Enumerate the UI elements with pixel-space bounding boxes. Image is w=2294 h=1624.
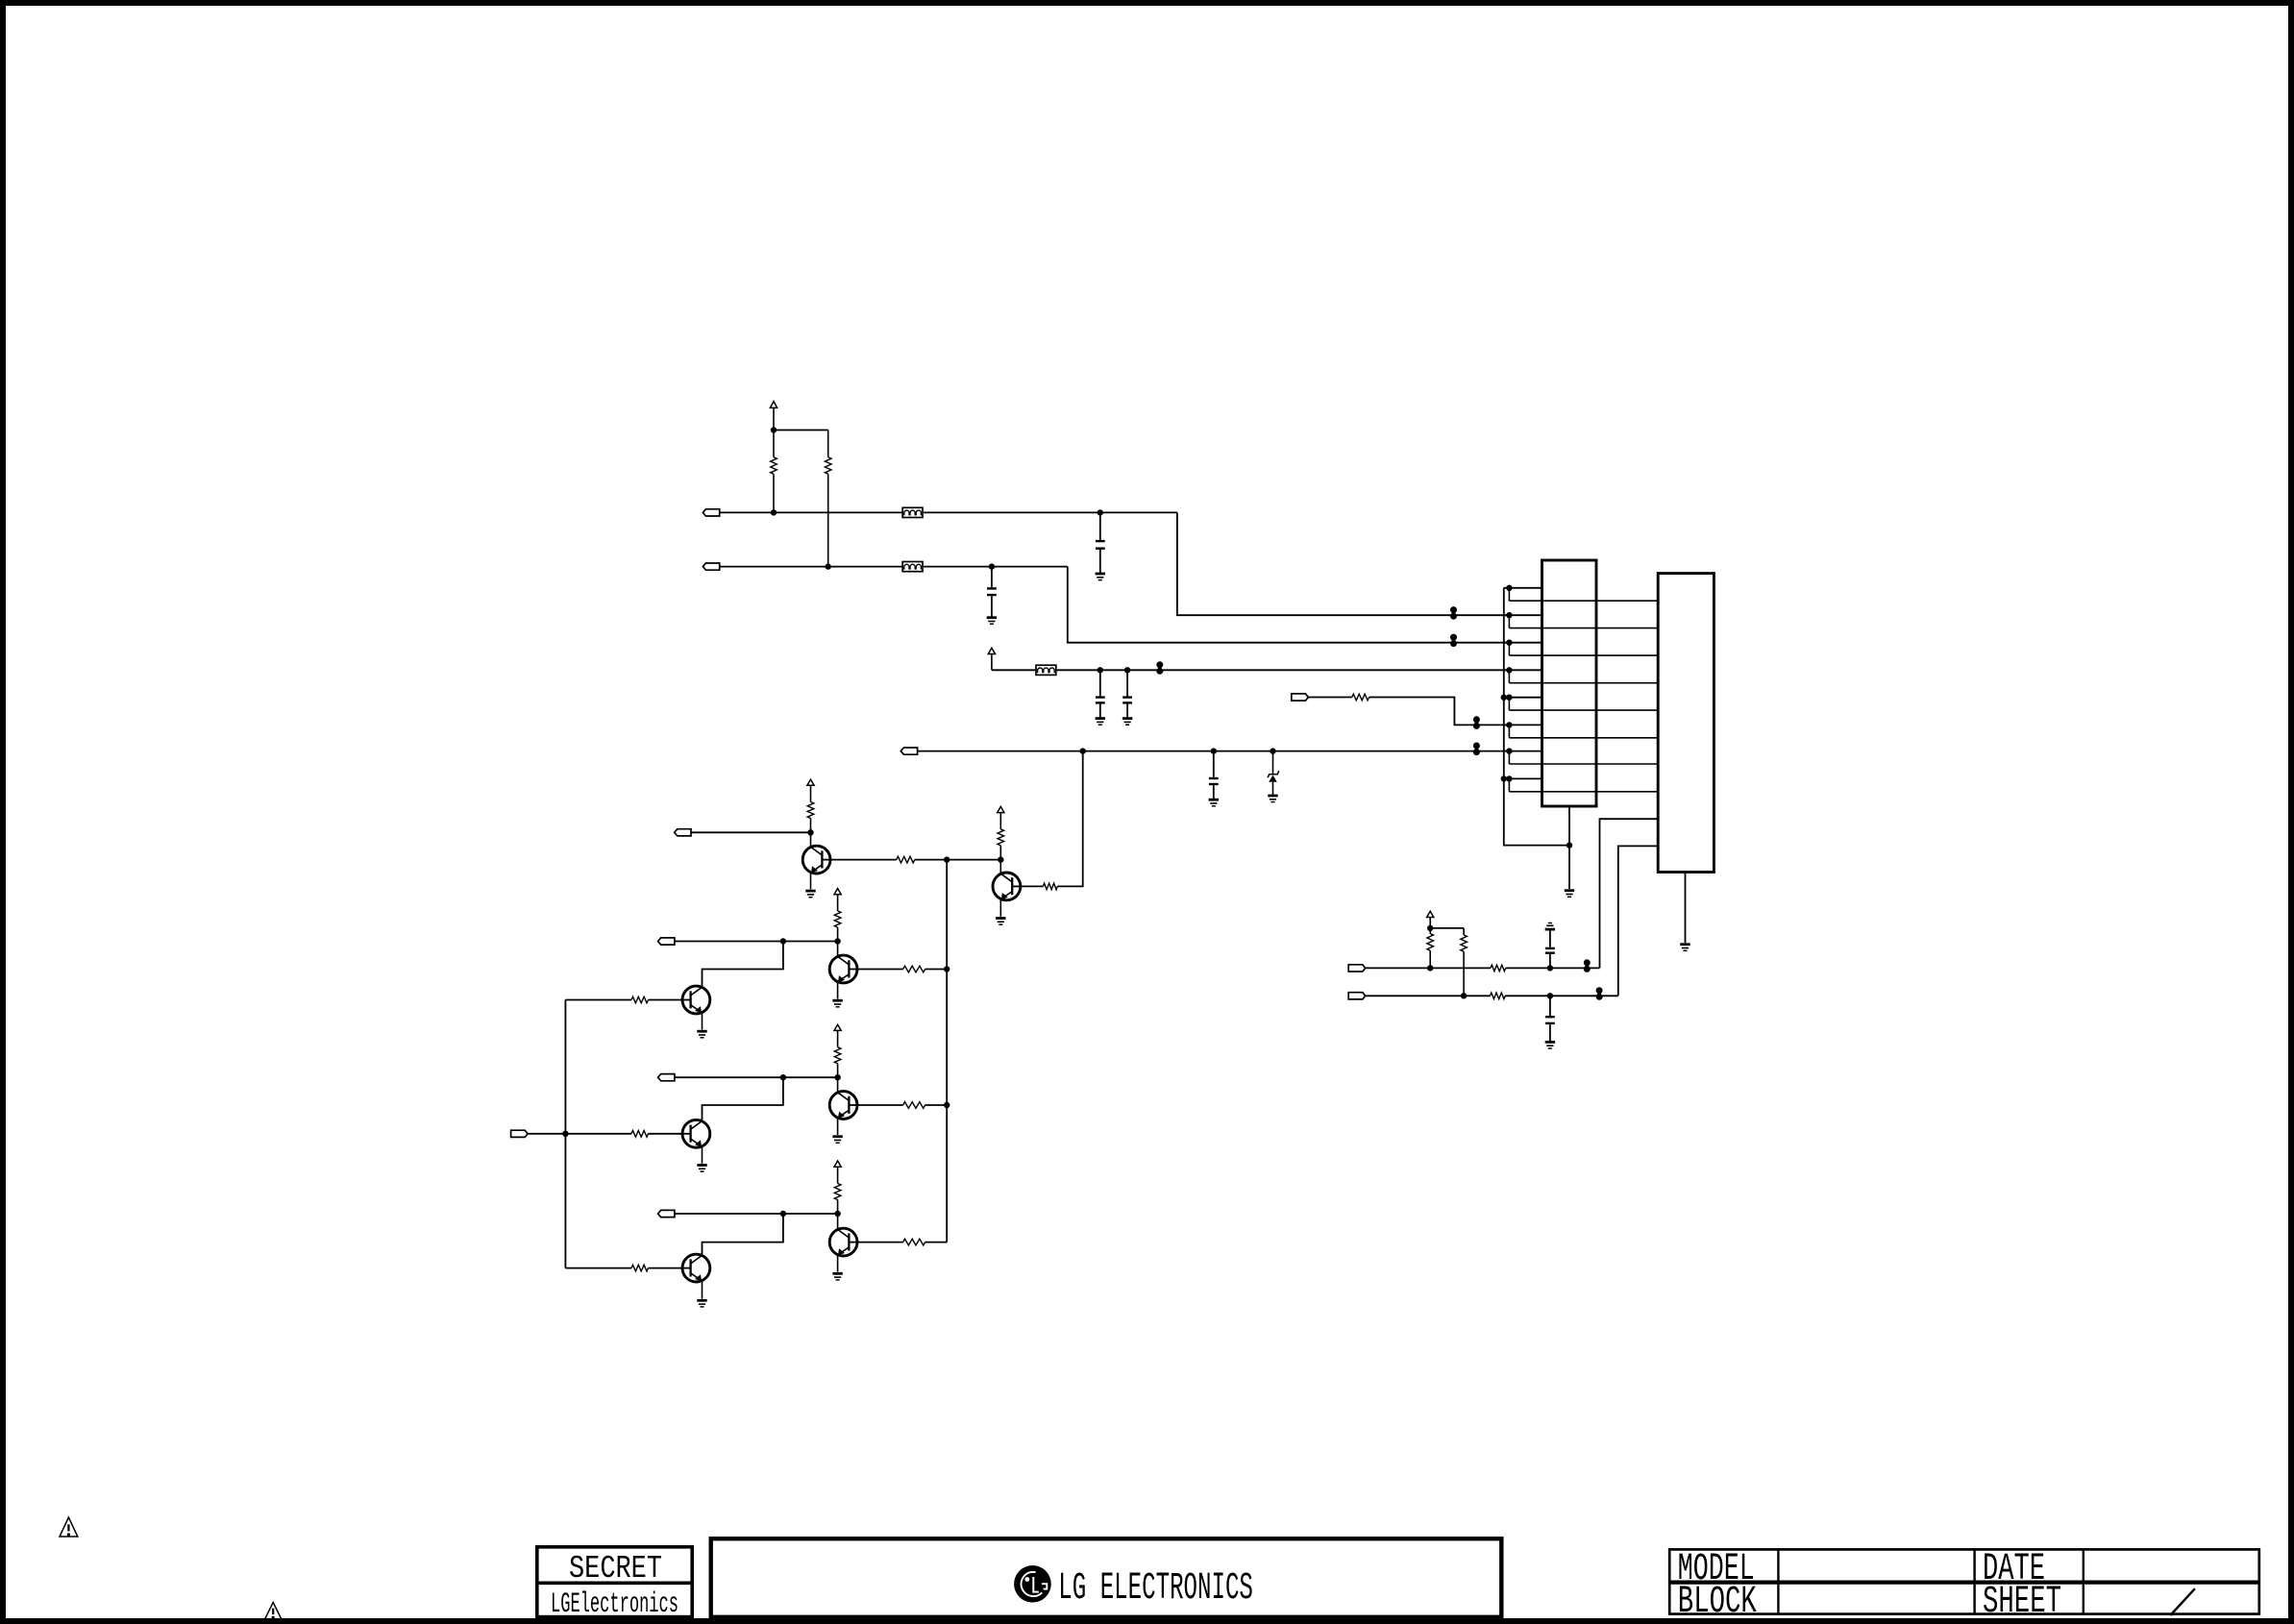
transistor T2: [829, 942, 857, 983]
IC pin row 8 stub and feedthrough: [1504, 775, 1658, 792]
wire T2 emitter: [837, 982, 839, 999]
wire bus2 vertical: [946, 860, 948, 1243]
wire bus vertical (IC left): [1504, 588, 1569, 846]
junction bus2 top: [944, 856, 950, 862]
wire wire2 left segment: [720, 566, 902, 568]
wire wire3 main segment: [1056, 669, 1510, 671]
text MODEL: [1678, 1548, 1755, 1591]
text BLOCK: [1678, 1581, 1757, 1624]
capacitor C7 to ground: [1545, 996, 1555, 1048]
wire Q3m emitter: [702, 1146, 703, 1164]
connector pin PB: [1348, 993, 1366, 999]
wire T1 base riser to row7: [1057, 751, 1082, 887]
junction on wire3 at C4: [1124, 667, 1130, 673]
junction on wire2 at C2: [989, 563, 995, 569]
IC pin row 2 stub and feedthrough: [1504, 612, 1658, 628]
warning triangle 1: [60, 1517, 78, 1537]
connector pin P5in: [511, 1130, 529, 1137]
capacitor C2 to ground: [987, 567, 997, 625]
resistor R4 (Q1 base series): [897, 856, 915, 863]
wire Q2m base to bus3: [565, 999, 631, 1001]
wire wire1 mid segment: [923, 511, 1177, 513]
resistor T3 base series: [903, 1102, 925, 1109]
wire base to bus2 a: [925, 969, 948, 971]
capacitor C3 to ground: [1096, 670, 1105, 725]
junction blob on wire3: [1156, 661, 1163, 675]
wire link to mirror transistor b: [703, 1077, 783, 1120]
zener diode D1 to ground: [1268, 751, 1279, 802]
power VCC arrow (bottom-right pair): [1427, 911, 1434, 928]
wire base to bus2 c (corner): [925, 1242, 948, 1243]
junction link node a: [780, 938, 786, 944]
resistor Rp2 (pull to wireB): [1461, 928, 1468, 996]
junction wireB-C7: [1547, 993, 1553, 998]
resistor Rp1 (pull to wireA): [1427, 928, 1434, 969]
resistor T4 base series: [903, 1239, 925, 1245]
wire wire2 jog down to row3: [1068, 567, 1510, 643]
wire T4 base: [857, 1242, 903, 1243]
wire row7 feed: [918, 750, 1510, 752]
power VCC arrow + resistor R5 (T1 pull-up): [998, 806, 1004, 859]
resistor R7 (T1 base series): [1043, 883, 1057, 890]
wire Q4m emitter: [702, 1281, 703, 1299]
wire pin row c: [675, 1213, 838, 1215]
junction T1 collector node: [998, 856, 1003, 862]
power VCC arrow (wire3): [988, 648, 995, 670]
junction pull node c: [834, 1211, 840, 1217]
junction blob on row3 wire: [1450, 634, 1457, 648]
junction on wire1 at R1: [771, 509, 777, 515]
junction blob on row6 wire: [1473, 716, 1480, 729]
junction row7-riser: [1080, 748, 1086, 753]
junction blob on row2 wire: [1450, 606, 1457, 620]
power VCC arrow (top-left pair): [770, 402, 777, 431]
connector pin P7in: [900, 748, 917, 754]
wire link pull resistor tops: [1430, 927, 1464, 929]
ground Q2m emitter: [697, 1031, 706, 1038]
wire link to mirror transistor c: [703, 1214, 783, 1254]
ground Q4m emitter: [697, 1300, 706, 1307]
wire pin5 to bus3: [528, 1133, 565, 1135]
junction row7-D1: [1270, 748, 1275, 753]
ground Q3m emitter: [697, 1166, 706, 1172]
junction wireB-Rp2: [1461, 993, 1467, 998]
text SECRET: [569, 1551, 662, 1587]
wire Q2m emitter: [702, 1013, 703, 1030]
wire pin row b: [675, 1076, 838, 1078]
transistor T1: [993, 860, 1021, 900]
IC pin row 5 stub and feedthrough: [1504, 695, 1658, 711]
junction bus row8: [1501, 775, 1507, 781]
connector pin P6out: [658, 1210, 675, 1217]
ground T4 emitter: [832, 1273, 842, 1280]
wire row6 feed left: [1308, 697, 1352, 699]
resistor R6 (series): [1352, 694, 1369, 701]
junction wireA-C6: [1547, 965, 1553, 971]
junction Q1 collector node: [807, 829, 813, 835]
resistor Q3m base series: [631, 1131, 649, 1138]
connector pin P1: [703, 509, 719, 516]
resistor Q4m base series: [631, 1265, 649, 1271]
wire base to bus2 b: [925, 1104, 948, 1106]
power VCC arrow + resistor (cell b pull-up): [834, 1024, 841, 1077]
transistor Q1: [802, 832, 830, 874]
wire wireB: [1366, 995, 1618, 997]
wire Q2m base: [649, 999, 683, 1001]
wire wire1 jog down to row2: [1177, 512, 1510, 615]
wire R4 to T1 node: [915, 859, 1001, 861]
junction on wire2 at R2: [826, 563, 831, 569]
ferrite bead FB1: [902, 507, 923, 517]
ground under U1: [1565, 891, 1574, 898]
junction on wire1 at C1: [1098, 509, 1103, 515]
junction U1 ground node: [1566, 842, 1572, 848]
connector pin P4out: [658, 938, 675, 945]
resistor Q2m base series: [631, 997, 649, 1003]
capacitor C4 to ground: [1122, 670, 1132, 725]
text DATE: [1983, 1548, 2045, 1591]
IC pin row 3 stub and feedthrough: [1504, 640, 1658, 656]
connector pin P3: [675, 829, 691, 836]
connector pin PA: [1348, 965, 1366, 972]
wire Q4m base to bus3: [565, 1267, 631, 1269]
junction blob on row7 wire: [1473, 743, 1480, 756]
IC pin row 1 stub and feedthrough: [1504, 585, 1658, 602]
junction on wire3 at C3: [1098, 667, 1103, 673]
IC pin row 7 stub and feedthrough: [1504, 748, 1658, 764]
junction bus2 b: [944, 1102, 950, 1108]
node junction (1488.2,965.9): [1427, 925, 1433, 931]
ferrite bead FB2: [902, 562, 923, 572]
warning triangle 2: [264, 1602, 282, 1619]
junction pull node a: [834, 938, 840, 944]
junction wireA-Rp1: [1427, 965, 1433, 971]
connector pin P2: [703, 563, 719, 570]
wire Q4m base: [649, 1267, 683, 1269]
junction pull node b: [834, 1074, 840, 1080]
wire T2 base: [857, 969, 903, 971]
capacitor C1 to ground: [1096, 512, 1105, 579]
capacitor C5 to ground: [1209, 751, 1219, 806]
logo LG emblem: [1014, 1565, 1051, 1603]
IC U1 (left block): [1542, 560, 1597, 806]
wire row6 feed jog: [1369, 698, 1510, 726]
junction link node b: [780, 1074, 786, 1080]
junction bus2 a: [944, 966, 950, 972]
wire wire2 mid segment: [923, 566, 1068, 568]
ground T3 emitter: [832, 1137, 842, 1144]
junction row7-C5: [1211, 748, 1217, 753]
transistor Q3m (mirrored): [682, 1120, 710, 1147]
wire Q1 base: [830, 859, 897, 861]
wire V1 (U2 pin to wireA): [1600, 819, 1659, 968]
ground under U2: [1680, 945, 1690, 951]
IC U2 (right block): [1658, 574, 1714, 873]
IC pin row 4 stub and feedthrough: [1504, 667, 1658, 683]
junction blob on wireB: [1596, 987, 1603, 1000]
svg-text:SHEET: SHEET: [1983, 1581, 2061, 1624]
power VCC arrow + resistor (cell a pull-up): [834, 889, 841, 942]
wire T3 base: [857, 1104, 903, 1106]
IC pin row 6 stub and feedthrough: [1504, 722, 1658, 738]
sheet slash: [2170, 1588, 2195, 1615]
junction blob on wireA: [1584, 959, 1591, 972]
wire V2 (U2 pin to wireB): [1618, 846, 1658, 996]
text LGElectronics: [551, 1588, 678, 1621]
ground T2 emitter: [832, 1000, 842, 1007]
ferrite bead FB3: [1036, 665, 1056, 675]
wire T3 emitter: [837, 1118, 839, 1135]
svg-text:BLOCK: BLOCK: [1678, 1581, 1757, 1624]
wire T4 emitter: [837, 1255, 839, 1272]
svg-text:LGElectronics: LGElectronics: [551, 1588, 678, 1621]
wire Q1 emitter: [810, 874, 812, 890]
capacitor C6 to ground (up): [1545, 923, 1555, 969]
central title box: [711, 1538, 1502, 1617]
node junction (805,447.5): [771, 427, 777, 432]
SECRET box: [535, 1547, 694, 1617]
power VCC arrow + resistor R3 (Q1 pull-up): [807, 779, 814, 832]
wire T1 base: [1021, 885, 1044, 887]
junction bus3 pin5: [562, 1131, 568, 1137]
text SHEET: [1983, 1581, 2061, 1624]
wire pin3 to Q1: [691, 831, 811, 833]
junction link node c: [780, 1211, 786, 1217]
wire U1 bottom pin to ground: [1568, 806, 1570, 889]
connector pin P5out: [658, 1074, 675, 1081]
wire wire1 left segment: [720, 511, 902, 513]
wire Q3m base: [649, 1133, 683, 1135]
right title table: [1669, 1549, 2259, 1613]
ground Q1 emitter: [805, 891, 815, 898]
wire bus3 vertical (left): [564, 1000, 566, 1268]
wire Q3m base to bus3: [565, 1133, 631, 1135]
resistor R2 (pull-up to wire2): [825, 431, 831, 567]
resistor Ra (series wireA): [1491, 965, 1506, 972]
ground T1 emitter: [996, 919, 1005, 925]
transistor Q2m (mirrored): [682, 986, 710, 1014]
wire wire3 left segment: [992, 669, 1036, 671]
transistor T3: [829, 1077, 857, 1119]
resistor R1 (pull-up to wire1): [771, 431, 777, 513]
connector pin P6in: [1292, 694, 1309, 701]
transistor Q4m (mirrored): [682, 1254, 710, 1282]
wire U2 bottom pin: [1685, 873, 1687, 944]
resistor T2 base series: [903, 966, 925, 972]
wire T1 emitter: [999, 900, 1001, 917]
power VCC arrow + resistor (cell c pull-up): [834, 1161, 841, 1214]
wire link to mirror transistor a: [703, 942, 783, 986]
transistor T4: [829, 1214, 857, 1256]
wire link resistor tops: [774, 430, 828, 431]
svg-text:SECRET: SECRET: [569, 1551, 662, 1587]
wire pin row a: [675, 941, 838, 943]
resistor Rb (series wireB): [1491, 993, 1506, 999]
wire wireA: [1366, 967, 1600, 969]
junction bus row5: [1501, 695, 1507, 701]
svg-text:LG ELECTRONICS: LG ELECTRONICS: [1058, 1567, 1253, 1611]
text LG ELECTRONICS: [1058, 1567, 1253, 1611]
